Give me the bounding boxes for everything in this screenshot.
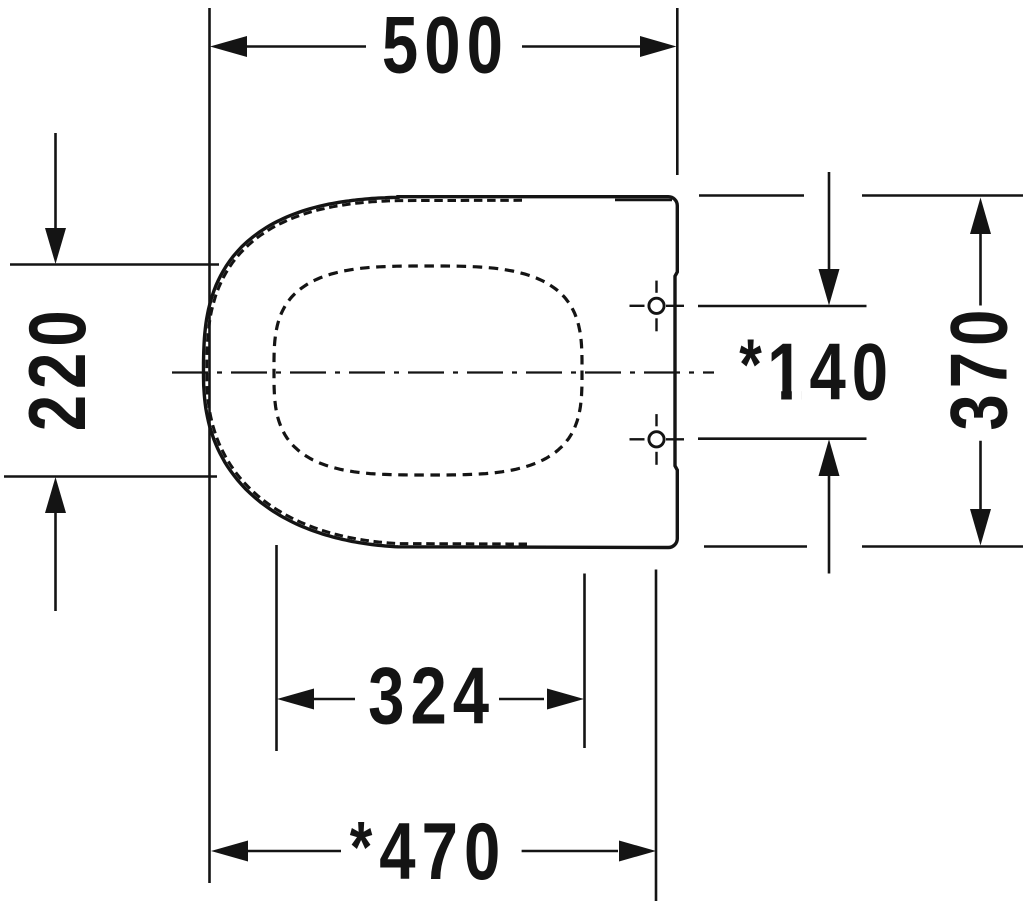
svg-text:220: 220 bbox=[11, 304, 102, 431]
dimension 324 line + arrows bbox=[277, 689, 584, 710]
dimension 500 line + arrows bbox=[210, 36, 677, 57]
seat ring dashed outline bbox=[207, 200, 527, 544]
extension lines *140 bbox=[698, 306, 867, 439]
svg-text:*: * bbox=[739, 325, 762, 405]
extension lines 220 bbox=[4, 265, 219, 477]
toilet seat outer outline bbox=[204, 197, 678, 548]
extension line right (470) bbox=[655, 570, 658, 902]
hinge hole 2 bbox=[649, 432, 664, 447]
mask: remove foot serif of digit 1 bbox=[768, 388, 802, 402]
svg-text:370: 370 bbox=[933, 304, 1024, 431]
svg-text:*: * bbox=[350, 807, 373, 887]
hinge hole 1 bbox=[649, 298, 664, 313]
hinge plate double top edge bbox=[615, 199, 672, 202]
inner opening dashed oval bbox=[274, 266, 582, 475]
extension line right top (500) bbox=[676, 8, 679, 175]
dimension *470 line + arrows bbox=[211, 841, 656, 862]
dimension *140 arrows bbox=[819, 172, 840, 574]
svg-text:500: 500 bbox=[382, 0, 509, 90]
svg-text:140: 140 bbox=[767, 326, 894, 417]
horizontal centerline bbox=[172, 371, 714, 373]
svg-text:324: 324 bbox=[368, 650, 495, 741]
dimension 370 line + arrows bbox=[970, 198, 991, 546]
extension lines 370 (bottom edge extended) bbox=[704, 545, 1023, 548]
extension line left (500/470) bbox=[208, 8, 211, 883]
extension lines 324 bbox=[277, 545, 585, 751]
hinge hole 1 center marks bbox=[630, 281, 685, 332]
svg-text:470: 470 bbox=[379, 805, 506, 896]
dimension 220 arrows bbox=[45, 133, 66, 611]
hinge hole 2 center marks bbox=[630, 414, 685, 465]
extension lines 370 (top edge extended) bbox=[699, 194, 1023, 197]
